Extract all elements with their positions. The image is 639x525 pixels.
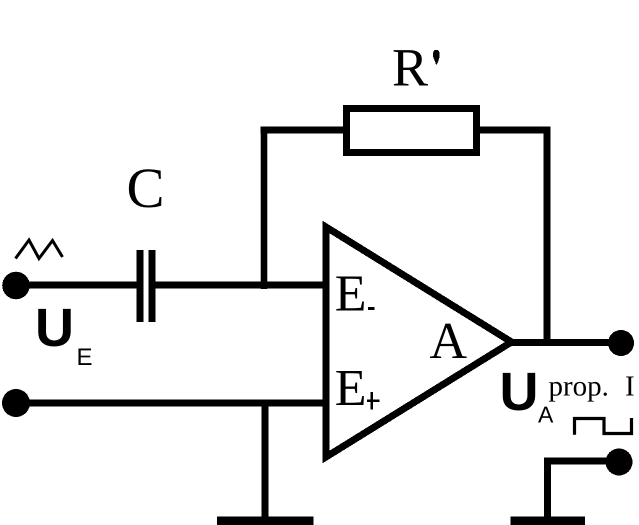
wire: left ground tap vertical [262, 403, 269, 521]
wire: feedback top-right horizontal [477, 127, 547, 134]
triangle-wave symbol at input [16, 240, 63, 259]
svg-text:U: U [500, 362, 539, 422]
svg-text:E: E [335, 360, 367, 417]
ground bar right [511, 517, 586, 525]
subscript plus of E+ horizontal bar [367, 400, 380, 403]
terminal: input bottom [2, 389, 30, 417]
wire: feedback right vertical down to output [544, 127, 551, 343]
wire: feedback left vertical (node to R' left) [261, 130, 268, 289]
wire: feedback top-left horizontal [261, 127, 347, 134]
svg-text:R: R [392, 38, 428, 98]
wire: top input terminal to capacitor [16, 282, 138, 289]
svg-text:I: I [625, 371, 635, 403]
terminal: output bottom [606, 449, 633, 476]
apostrophe of R' [433, 50, 440, 65]
subscript minus of E- [368, 307, 375, 310]
svg-text:A: A [430, 313, 468, 370]
svg-text:E: E [77, 344, 93, 371]
capacitor C plate right [149, 250, 156, 322]
wire: non-inverting input (E+) horizontal [16, 400, 326, 407]
subscript plus of E+ vertical bar [370, 392, 373, 409]
wire: capacitor to op-amp inverting input [154, 282, 326, 289]
svg-text:E: E [335, 266, 367, 323]
ground bar left [217, 516, 314, 525]
wire: right ground vertical [544, 458, 551, 522]
capacitor C plate left [137, 250, 144, 322]
resistor R' body [347, 109, 477, 153]
square-wave symbol at output [575, 418, 632, 435]
terminal: output top [608, 330, 634, 356]
wire: lower-right terminal to ground branch [547, 458, 619, 465]
svg-text:C: C [127, 157, 165, 220]
wire: op-amp output to terminal [511, 339, 621, 346]
op-amp A triangle [326, 227, 512, 457]
svg-text:U: U [35, 298, 74, 358]
svg-text:prop.: prop. [549, 371, 609, 403]
svg-text:A: A [538, 402, 554, 428]
terminal: input top [2, 272, 30, 300]
